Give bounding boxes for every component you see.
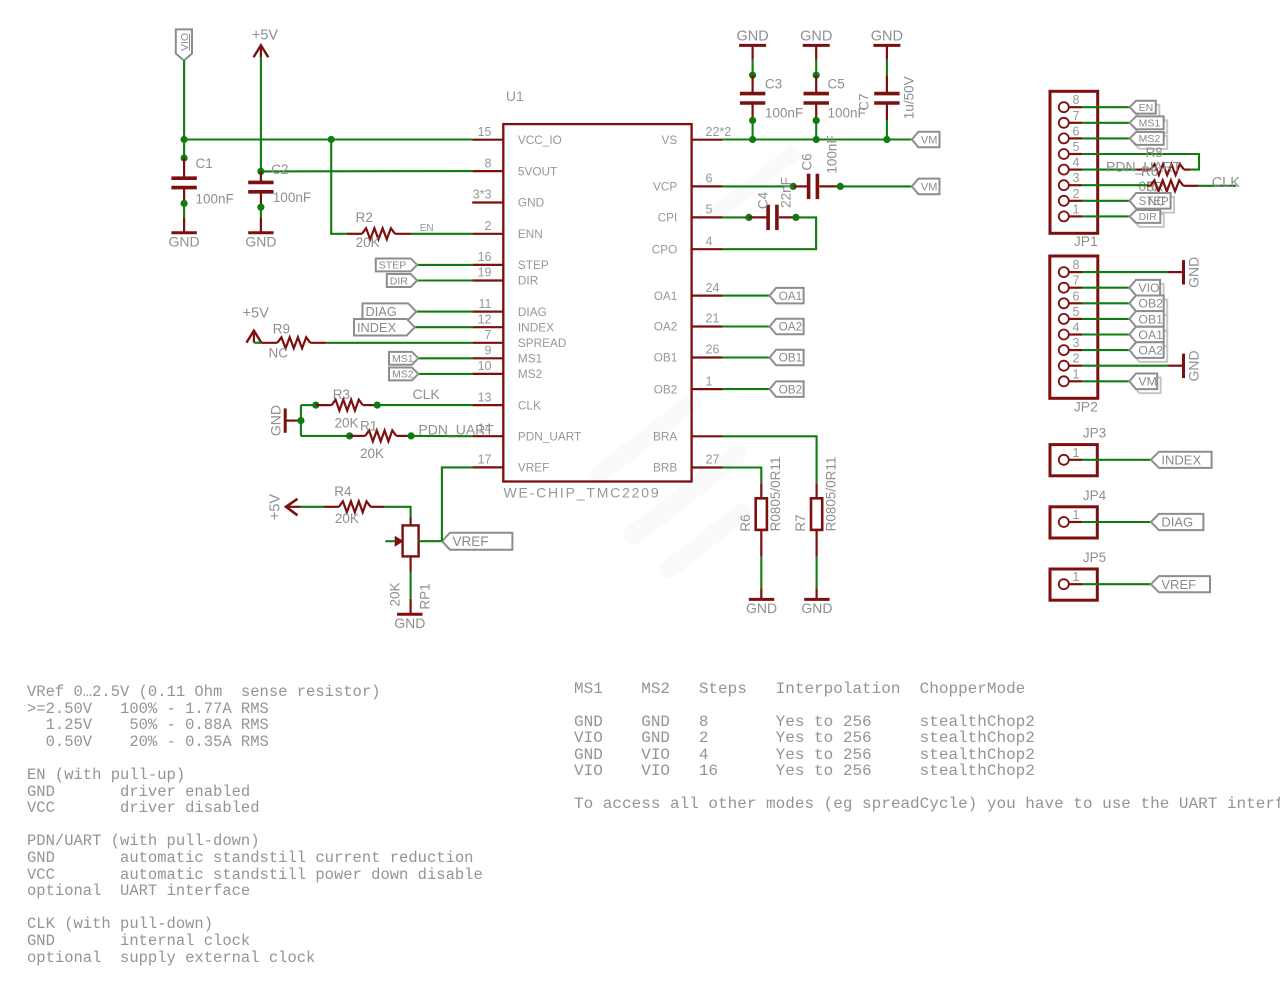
U1 right pin 22*2 VS [692,139,723,141]
svg-text:2: 2 [1073,352,1080,366]
wire C4 to CPO [723,217,816,249]
resistor R3 [332,400,363,411]
U1 left pin 13 CLK [472,404,503,406]
wire DIR [417,279,472,281]
svg-text:+5V: +5V [243,306,270,322]
svg-text:5: 5 [1073,140,1080,154]
note text block right (MS table) [574,681,1280,813]
net flag MS1 right [1133,120,1167,133]
ground under C2 [248,231,273,234]
svg-text:DIAG: DIAG [366,304,397,319]
junction VIO/bus [181,136,188,143]
JP1 pin 6 [1059,133,1069,143]
wire JP1-3 CLK [1082,184,1147,186]
net flag DIR [387,274,417,287]
svg-text:26: 26 [706,343,720,357]
wire +5V down (crosses bus) [260,57,262,171]
net flag EN [1133,105,1159,118]
net flag INDEX right [1151,452,1212,468]
wire R4 to RP1 [385,507,411,517]
connector JP2 [1050,256,1098,398]
svg-text:R0805/0R11: R0805/0R11 [768,457,783,532]
svg-text:INDEX: INDEX [518,320,554,334]
svg-text:+5V: +5V [268,494,284,521]
svg-text:GND: GND [245,234,276,250]
wire JP4 to DIAG [1082,521,1151,523]
U1 right pin 5 CPI [692,216,723,218]
connector JP1 [1050,91,1098,233]
wire JP1-4 PDN_UART [1082,169,1136,171]
svg-text:OA2: OA2 [779,320,803,334]
JP2 pin 4 [1059,330,1069,340]
capacitor C7 [886,75,888,93]
resistor R4 [339,501,371,512]
wire VS rail to VM [723,138,912,140]
net flag VM right [1133,378,1161,394]
net flag OA1 right [1133,331,1167,347]
svg-text:20K: 20K [388,582,403,606]
U1 left pin 9 MS1 [472,357,503,359]
wire vertical R3-R1 [300,405,302,436]
ground right of JP2-8 [1182,260,1185,284]
svg-text:VIO: VIO [1138,281,1159,295]
svg-text:R2: R2 [356,210,373,225]
svg-text:VREF: VREF [1161,577,1196,592]
net flag STEP [376,258,417,271]
svg-text:DIR: DIR [518,274,538,288]
svg-text:13: 13 [478,390,492,404]
junction bus/R2 branch [328,136,335,143]
wire JP2 OB1 [1082,318,1129,320]
svg-text:VREF: VREF [453,534,489,549]
net flag INDEX [354,319,415,336]
svg-text:GND: GND [268,405,284,436]
wire R9 to SPREAD pin [326,342,472,344]
svg-text:16: 16 [478,250,492,264]
svg-text:8: 8 [1073,93,1080,107]
wire VCP to C6 [723,185,794,187]
svg-text:C4: C4 [755,191,770,209]
wire STEP [417,264,472,266]
U1 left pin 2 ENN [472,233,503,235]
JP1 pin 1 [1059,211,1069,221]
capacitor C3 [751,75,753,93]
wire OB2 [723,388,770,390]
svg-text:VREF: VREF [518,461,549,475]
net flag VREF mid [442,533,512,550]
svg-text:1: 1 [1073,202,1080,216]
wire JP1-5 loop to R8 [1082,154,1199,170]
op-amp U1 WE-CHIP_TMC2209 box [503,124,691,481]
svg-text:22nF: 22nF [778,177,793,208]
ground right of JP2-2 [1182,354,1185,378]
resistor R7 [811,498,822,530]
wire C6 to VM [840,185,912,187]
power +5V at R4 [286,499,298,516]
U1 right pin 21 OA2 [692,325,723,327]
wire CPI to C4 [723,216,749,218]
JP1 pin 3 [1059,180,1069,190]
note text block left [27,684,483,966]
junction GND tee [297,417,304,424]
net flag VM top [912,132,940,148]
wire OA2 [723,325,770,327]
svg-text:3: 3 [1073,336,1080,350]
net flag DIR right [1133,214,1164,227]
capacitor C4 [766,205,770,230]
net flag STEP right [1133,197,1174,213]
JP2 pin 7 [1059,283,1069,293]
U1 right pin BRA [692,435,723,437]
svg-text:1u/50V: 1u/50V [902,76,917,119]
svg-text:2: 2 [1073,187,1080,201]
svg-text:JP4: JP4 [1083,488,1107,503]
svg-text:100nF: 100nF [196,192,234,207]
JP2 pin 6 [1059,298,1069,308]
svg-text:10: 10 [478,359,492,373]
wire JP2-7 VIO [1082,287,1129,289]
svg-text:6: 6 [706,172,713,186]
svg-text:R9: R9 [273,321,290,336]
net flag MS2 left [389,367,418,380]
svg-text:C2: C2 [271,162,288,177]
wire JP1-6 MS2 [1082,137,1130,139]
wire JP2-2 GND [1082,365,1168,367]
svg-text:GND: GND [169,234,200,250]
JP2 pin 2 [1059,361,1069,371]
svg-text:BRA: BRA [653,430,677,444]
svg-text:R6: R6 [738,514,753,531]
svg-text:BRB: BRB [653,461,677,475]
ground under RP1 [397,613,422,616]
svg-text:R4: R4 [334,484,352,499]
wire JP1-1 DIR [1082,215,1130,217]
svg-text:2: 2 [485,219,492,233]
svg-text:8: 8 [485,156,492,170]
svg-text:GND: GND [1186,350,1202,381]
svg-text:CLK: CLK [413,386,441,402]
ground under R7 [804,598,829,601]
capacitor C6 [807,174,811,199]
wire JP1-2 STEP [1082,200,1130,202]
net flag OB2 [770,381,804,397]
svg-text:GND: GND [518,196,544,210]
svg-text:JP5: JP5 [1083,550,1106,565]
wire JP2-1 VM [1082,380,1129,382]
svg-text:OA1: OA1 [654,289,678,303]
U1 left pin 11 DIAG [472,311,503,313]
svg-text:CPI: CPI [658,211,678,225]
wire OA1 [723,295,770,297]
wire JP3 to INDEX [1082,459,1151,461]
wire JP2 OA2 [1082,349,1129,351]
net flag OA1 [770,288,804,304]
wire VCC_IO bus [184,138,472,140]
svg-text:4: 4 [1073,156,1080,170]
faint watermark [584,143,803,582]
ground under R6 [749,598,774,601]
U1 left pin 7 SPREAD [472,342,503,344]
net flag OA2 [770,319,804,335]
resistor R1 [365,430,396,441]
svg-text:24: 24 [706,281,720,295]
svg-text:R3: R3 [333,387,350,402]
connector JP4 [1050,507,1097,538]
wire JP1-7 MS1 [1082,122,1130,124]
svg-text:+5V: +5V [252,27,279,43]
resistor R6 [756,498,767,530]
svg-text:MS2: MS2 [1139,133,1161,145]
svg-text:MS1: MS1 [518,352,542,366]
wire OB1 [723,356,770,358]
ground under C1 [171,231,196,234]
wire RP1 wiper stub [385,540,395,542]
svg-text:R0805/0R11: R0805/0R11 [823,457,838,532]
U1 left pin 14 PDN_UART [472,435,503,437]
svg-text:9: 9 [485,344,492,358]
JP2 pin 5 [1059,314,1069,324]
svg-text:6: 6 [1073,289,1080,303]
U1 left pin 3*3 GND [472,201,503,203]
svg-text:21: 21 [706,312,720,326]
svg-text:19: 19 [478,266,492,280]
net flag VIO (top-left) [176,29,192,60]
wire JP5 to VREF [1082,583,1151,585]
U1 right pin 26 OB1 [692,356,723,358]
svg-text:100nF: 100nF [273,190,311,205]
svg-text:GND: GND [801,600,832,616]
svg-text:GND: GND [394,615,425,631]
svg-text:22*2: 22*2 [706,125,732,139]
svg-text:20K: 20K [356,235,380,250]
JP2 pin 3 [1059,345,1069,355]
svg-text:OA2: OA2 [654,320,678,334]
svg-text:INDEX: INDEX [1161,452,1201,467]
svg-text:JP3: JP3 [1083,426,1106,441]
U1 right pin 4 CPO [692,248,723,250]
wire JP2 OA1 [1082,333,1129,335]
svg-text:EN: EN [420,223,434,234]
svg-text:3: 3 [1073,171,1080,185]
net flag OB2 right [1133,300,1167,316]
svg-text:VCP: VCP [653,180,677,194]
svg-text:R1: R1 [360,418,377,433]
net flag VM lower [912,179,940,195]
capacitor C2 [260,171,262,182]
U1 right pin 1 OB2 [692,388,723,390]
wire MS1 [418,357,472,359]
JP2 pin 1 [1059,376,1069,386]
svg-text:15: 15 [478,125,492,139]
net flag OB1 right [1133,315,1167,331]
connector JP5 [1050,569,1097,600]
power +5V at R9 [247,331,262,343]
wire BRA to R7 [723,436,817,483]
svg-text:VM: VM [921,134,938,146]
U1 left pin 10 MS2 [472,373,503,375]
power +5V (top) [254,45,269,57]
net flag DIAG [363,303,417,320]
svg-text:RP1: RP1 [417,583,432,609]
potentiometer RP1 [403,525,419,556]
svg-text:5: 5 [706,203,713,217]
svg-text:OB2: OB2 [1138,297,1163,311]
svg-text:CPO: CPO [652,242,678,256]
JP2 pin 8 [1059,267,1069,277]
svg-text:NC: NC [269,346,289,361]
wire to R1 [301,435,350,437]
svg-text:20K: 20K [335,511,359,526]
svg-text:MS1: MS1 [1139,118,1161,130]
wire R2 to ENN pin [411,233,472,235]
svg-text:CLK: CLK [518,398,541,412]
svg-text:C7: C7 [857,93,872,110]
svg-text:C3: C3 [765,76,782,91]
connector JP3 [1050,445,1097,476]
net flag OA2 right [1133,346,1167,362]
JP1 pin 7 [1059,118,1069,128]
svg-text:STEP: STEP [379,260,406,272]
svg-text:OB1: OB1 [1138,312,1163,326]
svg-text:GND: GND [736,28,768,44]
svg-text:PDN_UART: PDN_UART [1106,159,1182,175]
wire INDEX [415,326,473,328]
net flag OB1 [770,350,804,366]
JP1 pin 8 [1059,102,1069,112]
svg-text:4: 4 [1073,321,1080,335]
svg-text:100nF: 100nF [825,135,840,173]
svg-text:CLK: CLK [1212,175,1241,191]
svg-text:C5: C5 [828,76,845,91]
svg-text:U1: U1 [506,88,524,104]
net flag DIAG right [1151,514,1204,530]
resistor R5 0R [1150,180,1183,191]
wire VIO down to bus and C1 [183,61,185,159]
svg-text:OB2: OB2 [779,382,803,396]
JP1 pin 2 [1059,196,1069,206]
svg-text:MS1: MS1 [392,353,414,365]
JP1 pin 5 [1059,149,1069,159]
U1 left pin 16 STEP [472,264,503,266]
svg-text:7: 7 [1073,274,1080,288]
wire JP2-8 GND [1082,271,1168,273]
svg-text:WE-CHIP_TMC2209: WE-CHIP_TMC2209 [504,484,661,500]
resistor R9 [277,337,310,348]
svg-text:5VOUT: 5VOUT [518,164,557,178]
svg-text:VCC_IO: VCC_IO [518,133,562,147]
wire DIAG [416,311,472,313]
svg-text:VM: VM [1138,375,1156,389]
capacitor C5 [815,75,817,93]
junction R1 right [408,432,415,439]
U1 right pin 27 BRB [692,466,723,468]
capacitor C1 [181,154,188,161]
svg-text:GND: GND [1186,257,1202,288]
U1 left pin 19 DIR [472,279,503,281]
ground above C7 [873,44,900,47]
svg-text:4: 4 [706,234,713,248]
junction R1 left [346,432,353,439]
junction R3 left [312,402,319,409]
svg-text:DIAG: DIAG [1161,515,1193,530]
net flag MS2 right [1133,136,1167,149]
wire VREF up to pin 17 [442,467,472,541]
svg-text:OB2: OB2 [654,382,678,396]
svg-text:ENN: ENN [518,227,543,241]
svg-text:R7: R7 [793,514,808,531]
svg-text:OA2: OA2 [1138,344,1163,358]
svg-text:100nF: 100nF [765,106,803,121]
svg-text:NC: NC [1148,194,1166,208]
svg-text:DIR: DIR [1139,211,1158,223]
U1 right pin 6 VCP [692,185,723,187]
svg-text:1: 1 [1073,570,1080,584]
JP1 pin 4 [1059,165,1069,175]
svg-text:OA1: OA1 [1138,328,1163,342]
svg-text:PDN_UART: PDN_UART [518,429,581,443]
RP1 bottom pin [410,556,412,572]
svg-text:7: 7 [485,328,492,342]
wire R3 to CLK pin [377,404,472,406]
svg-text:6: 6 [1073,124,1080,138]
svg-text:3*3: 3*3 [473,188,492,202]
net flag VIO right [1133,284,1164,300]
svg-text:MS2: MS2 [518,367,542,381]
svg-text:11: 11 [479,297,492,311]
svg-text:MS2: MS2 [392,369,414,381]
svg-text:OB1: OB1 [779,351,803,365]
resistor R2 [362,228,395,239]
wire bus to R2 [331,140,347,234]
svg-text:8: 8 [1073,258,1080,272]
junction R3 right [374,402,381,409]
U1 left pin 8 5VOUT [472,170,503,172]
U1 left pin 17 VREF [472,466,503,468]
wire to 5VOUT pin [261,170,472,172]
svg-text:GND: GND [871,28,903,44]
net flag MS1 left [389,352,418,365]
svg-text:OA1: OA1 [779,289,803,303]
svg-text:20K: 20K [360,446,384,461]
svg-text:1: 1 [706,374,713,388]
wire R1 to PDN_UART pin [411,435,472,437]
ground at R3/R1 [284,408,287,432]
svg-text:1: 1 [1073,446,1080,460]
svg-text:GND: GND [800,28,832,44]
svg-text:C6: C6 [800,153,815,170]
svg-text:17: 17 [478,453,492,467]
resistor R8 [1151,164,1185,175]
ground above C3 [739,44,766,47]
svg-text:1: 1 [1073,367,1080,381]
svg-text:JP2: JP2 [1074,398,1098,414]
svg-text:OB1: OB1 [654,351,678,365]
svg-text:GND: GND [746,600,777,616]
U1 right pin 24 OA1 [692,295,723,297]
svg-text:12: 12 [478,312,492,326]
wire JP2 OB2 [1082,302,1129,304]
junction +5V/5VOUT [257,168,264,175]
svg-text:20K: 20K [335,416,359,431]
svg-text:C1: C1 [196,156,213,171]
U1 left pin 12 INDEX [472,326,503,328]
svg-text:7: 7 [1073,109,1080,123]
wire RP1 to VREF flag [419,540,442,542]
svg-text:1: 1 [1073,508,1080,522]
svg-text:INDEX: INDEX [357,320,397,335]
wire JP1-8 EN [1082,106,1130,108]
svg-text:JP1: JP1 [1074,233,1098,249]
